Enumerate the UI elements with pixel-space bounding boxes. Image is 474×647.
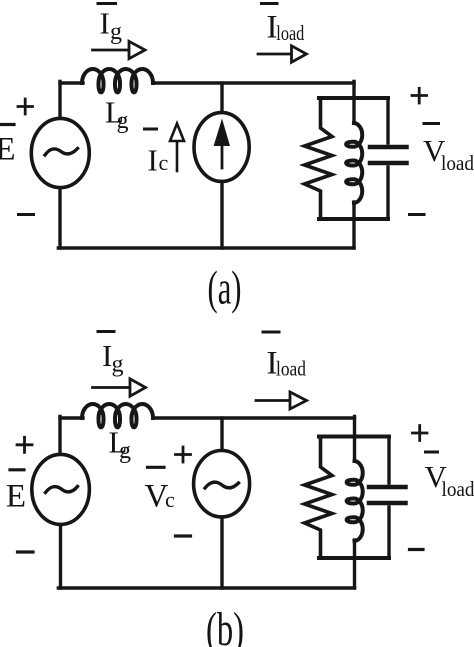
wire (a) left vertical bottom — [58, 189, 61, 249]
AC source Vc sine symbol (b) — [205, 482, 239, 488]
load bottom bar (b) — [319, 556, 389, 560]
capacitor Cload stem top (a) — [386, 98, 389, 143]
svg-text:g: g — [119, 438, 131, 464]
label Vload overbar (a) — [424, 122, 439, 125]
annotation Ic overbar minus (a) — [145, 128, 157, 131]
label E overbar (b) — [10, 468, 24, 471]
svg-text:g: g — [117, 108, 129, 134]
svg-text:I: I — [148, 143, 158, 178]
current arrow Ig (a) — [93, 49, 130, 52]
inductor Lload stem top (b) — [353, 437, 356, 461]
inductor Lload stem bottom (a) — [352, 202, 355, 219]
current arrow Iload (a) — [258, 53, 292, 56]
svg-text:load: load — [441, 151, 474, 175]
svg-text:(b): (b) — [206, 603, 244, 647]
AC source E (b) — [32, 454, 90, 524]
wire (b) top middle segment from Lg to load branch — [155, 416, 355, 419]
load top bar (b) — [319, 435, 389, 439]
label Vload overbar (b) — [426, 451, 438, 454]
polarity minus of Vc (b) — [176, 534, 191, 537]
label Vc overbar (b) — [148, 466, 165, 469]
polarity minus of Vload (b) — [410, 548, 424, 551]
wire (a) load branch feed top — [352, 81, 355, 98]
annotation Ic arrow stem (a) — [176, 141, 179, 171]
svg-text:c: c — [159, 150, 169, 175]
polarity plus of Vc (b) — [176, 447, 191, 462]
current arrow Ig head (a) — [129, 41, 145, 58]
resistor Rload (b) — [305, 437, 333, 558]
wire (b) left vertical top — [58, 416, 61, 454]
current label Iload overbar (b) — [263, 331, 279, 334]
annotation Ic arrow open head (a) — [170, 124, 184, 142]
svg-text:I: I — [100, 6, 110, 41]
inductor Lload (b) — [347, 461, 363, 541]
inductor Lload (a) — [346, 123, 362, 203]
wire (b) load branch feed top — [353, 416, 356, 436]
current arrow Iload head (b) — [290, 392, 307, 409]
wire (a) middle branch top — [220, 83, 223, 112]
wire (a) middle branch bottom — [220, 183, 223, 248]
wire (b) left vertical bottom — [59, 525, 62, 588]
svg-text:c: c — [165, 487, 175, 512]
wire (a) bottom — [58, 246, 354, 250]
AC source E sine symbol (a) — [45, 149, 78, 156]
inductor Lg (a) — [82, 69, 153, 92]
polarity minus of Vload (a) — [410, 213, 425, 216]
wire (b) top-left segment from E branch to Lg — [60, 416, 83, 419]
polarity plus of Vload (a) — [412, 88, 427, 103]
polarity plus of E (b) — [17, 437, 32, 452]
wire (b) bottom — [58, 586, 354, 590]
current arrow Iload head (a) — [292, 46, 307, 62]
svg-text:load: load — [276, 357, 306, 381]
polarity plus of Vload (b) — [413, 426, 428, 441]
svg-text:E: E — [0, 132, 16, 168]
svg-text:E: E — [6, 479, 26, 515]
wire (a) load branch feed bottom — [352, 219, 355, 248]
AC source Vc (b) — [194, 451, 250, 517]
capacitor Cload stem bottom (a) — [386, 167, 389, 219]
current source Ic arrow head (a) — [214, 119, 230, 147]
capacitor Cload bottom plate (a) — [370, 161, 407, 166]
capacitor Cload stem top (b) — [387, 437, 390, 484]
svg-text:g: g — [110, 19, 122, 45]
current arrow Ig (b) — [93, 386, 131, 389]
current label Ig overbar (b) — [98, 330, 114, 333]
wire (b) middle branch top — [220, 418, 223, 450]
polarity minus of E (a) — [19, 213, 34, 216]
wire (a) top middle segment from Lg to load branch — [155, 81, 354, 84]
current label Ig overbar (a) — [98, 2, 116, 5]
polarity plus of E (a) — [18, 99, 33, 114]
wire (a) top-left segment from E branch to Lg — [60, 81, 83, 84]
current source Ic arrow stem (a) — [221, 142, 224, 168]
svg-text:g: g — [112, 352, 124, 378]
AC source E (a) — [31, 118, 89, 187]
svg-text:load: load — [442, 477, 474, 501]
capacitor Cload bottom plate (b) — [369, 501, 406, 506]
AC source E sine symbol (b) — [46, 487, 78, 493]
load top bar (a) — [319, 96, 388, 100]
current arrow Ig head (b) — [130, 379, 146, 396]
capacitor Cload top plate (b) — [369, 485, 406, 490]
inductor Lg (b) — [82, 404, 153, 427]
load bottom bar (a) — [319, 217, 388, 221]
inductor Lload stem top (a) — [352, 98, 355, 122]
wire (a) left vertical top — [58, 81, 61, 118]
current label Iload overbar (a) — [262, 2, 278, 5]
capacitor Cload top plate (a) — [370, 145, 407, 150]
polarity minus of E (b) — [18, 550, 34, 553]
capacitor Cload stem bottom (b) — [387, 507, 390, 558]
wire (b) load branch feed bottom — [353, 558, 356, 588]
svg-text:(a): (a) — [208, 262, 242, 315]
label E overbar (a) — [0, 123, 14, 126]
wire (b) middle branch bottom — [220, 518, 223, 589]
inductor Lload stem bottom (b) — [353, 540, 356, 558]
svg-text:load: load — [276, 21, 304, 45]
resistor Rload (a) — [305, 99, 333, 220]
current source Ic (a) — [194, 113, 249, 182]
current arrow Iload (b) — [256, 399, 290, 402]
